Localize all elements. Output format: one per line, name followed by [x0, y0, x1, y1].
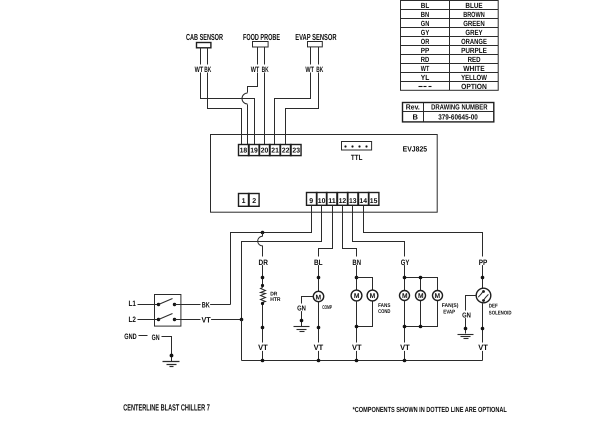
- EVAP sensor body: [308, 42, 323, 47]
- PP label: [479, 257, 489, 267]
- svg-text:23: 23: [292, 148, 300, 155]
- L2 wire: [138, 319, 159, 321]
- svg-text:WHITE: WHITE: [463, 64, 485, 73]
- svg-text:WT: WT: [195, 65, 204, 74]
- svg-text:BK: BK: [262, 65, 269, 74]
- svg-text:15: 15: [370, 198, 378, 205]
- BN label: [352, 257, 362, 267]
- svg-text:BLUE: BLUE: [465, 1, 482, 10]
- solenoid DEF SOLENOID: [476, 288, 491, 303]
- node GY lower junctions: [403, 325, 423, 329]
- svg-text:Rev.: Rev.: [406, 103, 420, 112]
- GY VT label: [400, 343, 411, 353]
- color code GY GREY: [421, 28, 483, 37]
- svg-text:VT: VT: [202, 316, 211, 325]
- svg-text:CAB SENSOR: CAB SENSOR: [186, 32, 223, 42]
- svg-text:13: 13: [349, 198, 357, 205]
- wire color code table: [401, 1, 499, 91]
- svg-text:18: 18: [240, 148, 248, 155]
- EVAP WT label: [305, 65, 315, 75]
- EVAP BK wire: [286, 47, 319, 145]
- wire terminal 14 to PP column: [364, 206, 483, 278]
- terminal block 9-15: [307, 193, 379, 206]
- svg-text:WT: WT: [305, 65, 314, 74]
- svg-text:FAN(S): FAN(S): [442, 303, 459, 309]
- svg-text:WT: WT: [421, 64, 430, 73]
- svg-text:VT: VT: [478, 343, 488, 352]
- svg-text:WT: WT: [251, 65, 260, 74]
- svg-text:HTR: HTR: [270, 297, 280, 303]
- svg-text:EVAP SENSOR: EVAP SENSOR: [295, 32, 337, 42]
- node VT junction: [240, 318, 244, 322]
- node BN lower: [355, 325, 359, 329]
- svg-text:YL: YL: [421, 73, 430, 82]
- svg-text:M: M: [402, 293, 408, 300]
- svg-text:BK: BK: [204, 65, 211, 74]
- CAB BK label: [204, 65, 212, 75]
- svg-text:BL: BL: [314, 258, 323, 267]
- solenoid ground wire GN: [466, 296, 477, 334]
- wire terminal 9 to BK node: [231, 206, 312, 305]
- COMP GN label: [297, 303, 307, 312]
- solenoid ground node: [464, 327, 468, 331]
- svg-text:EVJ825: EVJ825: [403, 144, 428, 153]
- svg-text:21: 21: [271, 148, 279, 155]
- svg-text:9: 9: [309, 198, 313, 205]
- svg-text:VT: VT: [400, 343, 410, 352]
- solenoid ground symbol: [458, 335, 474, 339]
- svg-text:12: 12: [339, 198, 347, 205]
- svg-text:EVAP: EVAP: [443, 309, 455, 315]
- DR lower wire: [262, 303, 264, 361]
- svg-text:BN: BN: [352, 258, 361, 267]
- GND ground symbol: [163, 362, 180, 367]
- node BL top: [317, 276, 321, 280]
- VT wire from switch: [175, 319, 242, 321]
- GY branch wires to evap fans: [405, 278, 438, 327]
- FOOD BK label: [261, 65, 269, 75]
- svg-text:BL: BL: [421, 1, 430, 10]
- bus junction nodes: [261, 359, 407, 363]
- BK label: [201, 300, 211, 309]
- BL column wire lower: [318, 302, 320, 361]
- node BN top: [355, 276, 359, 280]
- svg-text:GN: GN: [421, 19, 430, 28]
- svg-text:PURPLE: PURPLE: [461, 46, 487, 55]
- color code BL BLUE: [421, 1, 483, 10]
- wire terminal 11 to BL column: [319, 206, 333, 278]
- svg-text:OR: OR: [421, 37, 430, 46]
- solenoid GN label: [462, 311, 472, 320]
- CAB WT label: [195, 65, 205, 75]
- svg-text:BROWN: BROWN: [463, 10, 485, 19]
- FOOD sensor body: [253, 42, 269, 48]
- FOOD BK wire: [264, 48, 266, 145]
- svg-text:PP: PP: [479, 258, 488, 267]
- motor FAN(S) EVAP 1: [400, 291, 410, 301]
- svg-text:RD: RD: [421, 55, 430, 64]
- svg-text:2: 2: [252, 198, 256, 205]
- color code GN GREEN: [421, 19, 485, 28]
- node DR tap junction: [261, 231, 265, 235]
- DR wire with hop over VT feed: [258, 233, 263, 288]
- BL column wire upper: [318, 278, 320, 292]
- svg-text:L1: L1: [129, 299, 137, 308]
- motor FANS COND 2: [367, 290, 378, 301]
- DR lower node dots: [261, 302, 265, 329]
- svg-text:M: M: [370, 293, 376, 300]
- node BL lower: [317, 326, 321, 330]
- svg-text:OPTION: OPTION: [461, 82, 487, 91]
- BN column wire lower: [356, 301, 358, 361]
- BL VT label: [313, 343, 324, 353]
- FOOD WT label: [251, 65, 261, 75]
- svg-text:COND: COND: [378, 309, 390, 315]
- svg-text:1: 1: [242, 198, 246, 205]
- DR HTR value label: [270, 292, 280, 304]
- svg-text:CENTERLINE BLAST CHILLER 7: CENTERLINE BLAST CHILLER 7: [123, 403, 210, 413]
- svg-text:M: M: [316, 294, 322, 301]
- revision table: [403, 103, 494, 122]
- svg-text:M: M: [354, 293, 360, 300]
- svg-text:L2: L2: [129, 315, 137, 324]
- svg-text:19: 19: [250, 148, 258, 155]
- svg-text:M: M: [418, 293, 424, 300]
- svg-text:DR: DR: [259, 258, 269, 267]
- terminal block 18-23: [239, 145, 302, 156]
- color code dashed OPTION: [419, 82, 487, 91]
- PP VT label: [478, 343, 489, 353]
- svg-text:PP: PP: [421, 46, 430, 55]
- FOOD WT wire with hop: [248, 48, 258, 93]
- svg-text:GN: GN: [297, 303, 306, 312]
- FANS COND label: [378, 303, 391, 315]
- CAB BK wire: [208, 48, 242, 145]
- svg-text:B: B: [412, 112, 418, 121]
- motor COMP: [313, 291, 323, 301]
- node PP top: [481, 276, 485, 280]
- COMP ground wire GN: [302, 297, 314, 327]
- svg-text:GY: GY: [401, 258, 410, 267]
- PP column wire lower: [482, 304, 484, 361]
- GY column wire lower: [404, 301, 406, 361]
- svg-text:ORANGE: ORANGE: [461, 37, 487, 46]
- GY label: [401, 257, 411, 267]
- svg-text:DRAWING NUMBER: DRAWING NUMBER: [431, 103, 488, 112]
- motor FAN(S) EVAP 3: [433, 291, 443, 301]
- node GY top junctions: [403, 276, 423, 280]
- switch pole 1: [157, 299, 176, 307]
- color code BN BROWN: [421, 10, 485, 19]
- svg-text:VT: VT: [258, 343, 268, 352]
- EVAP BK label: [316, 65, 324, 75]
- GND dash: [139, 335, 148, 337]
- DR node dots: [261, 276, 265, 287]
- DEF SOLENOID label: [489, 303, 512, 316]
- BN VT label: [352, 343, 363, 353]
- motor FAN(S) EVAP 2: [416, 291, 426, 301]
- bus wire: [242, 360, 483, 362]
- wire terminal 10 to VT node: [242, 206, 322, 319]
- BN column wire upper: [356, 278, 358, 290]
- svg-text:379-60645-00: 379-60645-00: [438, 112, 478, 121]
- TTL connector: [342, 142, 372, 151]
- svg-text:BK: BK: [202, 300, 210, 309]
- svg-text:YELLOW: YELLOW: [461, 73, 488, 82]
- wire terminal 12 to BN column: [343, 206, 357, 278]
- color code RD RED: [421, 55, 481, 64]
- svg-text:BK: BK: [316, 65, 323, 74]
- svg-text:GN: GN: [462, 311, 471, 320]
- GY column wire upper: [404, 278, 406, 291]
- CAB WT wire: [201, 48, 255, 145]
- switch pole 2: [157, 314, 176, 322]
- svg-text:10: 10: [318, 198, 326, 205]
- wire terminal 13 to GY column: [353, 206, 405, 278]
- BK wire from switch: [175, 304, 231, 306]
- color code OR ORANGE: [421, 37, 487, 46]
- COMP ground node: [300, 319, 304, 323]
- BL label: [314, 257, 324, 267]
- svg-text:GY: GY: [421, 28, 430, 37]
- GND wire: [162, 337, 172, 362]
- switch S1 box: [155, 295, 181, 327]
- BN branch wire to second fan: [357, 278, 373, 327]
- FAN(S) EVAP label: [442, 303, 459, 315]
- svg-text:GREEN: GREEN: [463, 19, 485, 28]
- svg-text:14: 14: [359, 198, 367, 205]
- svg-text:M: M: [435, 293, 441, 300]
- DR label: [258, 257, 269, 267]
- svg-text:GND: GND: [124, 332, 137, 341]
- svg-text:VT: VT: [352, 343, 362, 352]
- svg-text:11: 11: [328, 198, 336, 205]
- GND node: [170, 354, 174, 358]
- resistor DR HTR: [261, 288, 266, 303]
- color code YL YELLOW: [421, 73, 488, 82]
- node PP lower: [481, 327, 485, 331]
- svg-text:SOLENOID: SOLENOID: [489, 310, 512, 316]
- svg-text:GREY: GREY: [465, 28, 482, 37]
- svg-text:TTL: TTL: [351, 153, 363, 162]
- svg-text:GN: GN: [152, 333, 160, 342]
- svg-text:RED: RED: [468, 55, 481, 64]
- COMP ground symbol: [294, 327, 310, 332]
- PP column wire upper: [482, 278, 484, 289]
- svg-text:DEF: DEF: [489, 303, 499, 309]
- color code WT WHITE: [421, 64, 485, 73]
- motor FANS COND 1: [351, 290, 362, 301]
- VT wire down to bus: [241, 320, 243, 361]
- svg-text:22: 22: [282, 148, 290, 155]
- terminal block 1-2: [239, 194, 260, 207]
- EVAP WT wire: [275, 47, 311, 145]
- svg-text:*COMPONENTS SHOWN IN DOTTED LI: *COMPONENTS SHOWN IN DOTTED LINE ARE OPT…: [353, 405, 508, 414]
- VT label: [201, 316, 212, 325]
- svg-text:VT: VT: [314, 343, 324, 352]
- L1 wire: [138, 304, 159, 306]
- color code PP PURPLE: [421, 46, 487, 55]
- DR VT label: [258, 343, 269, 353]
- CAB sensor body: [197, 43, 211, 48]
- svg-text:BN: BN: [421, 10, 430, 19]
- svg-text:FOOD PROBE: FOOD PROBE: [243, 32, 280, 42]
- svg-text:COMP: COMP: [322, 305, 332, 311]
- svg-text:20: 20: [261, 148, 269, 155]
- controller U1 EVJ825 box: [211, 135, 438, 213]
